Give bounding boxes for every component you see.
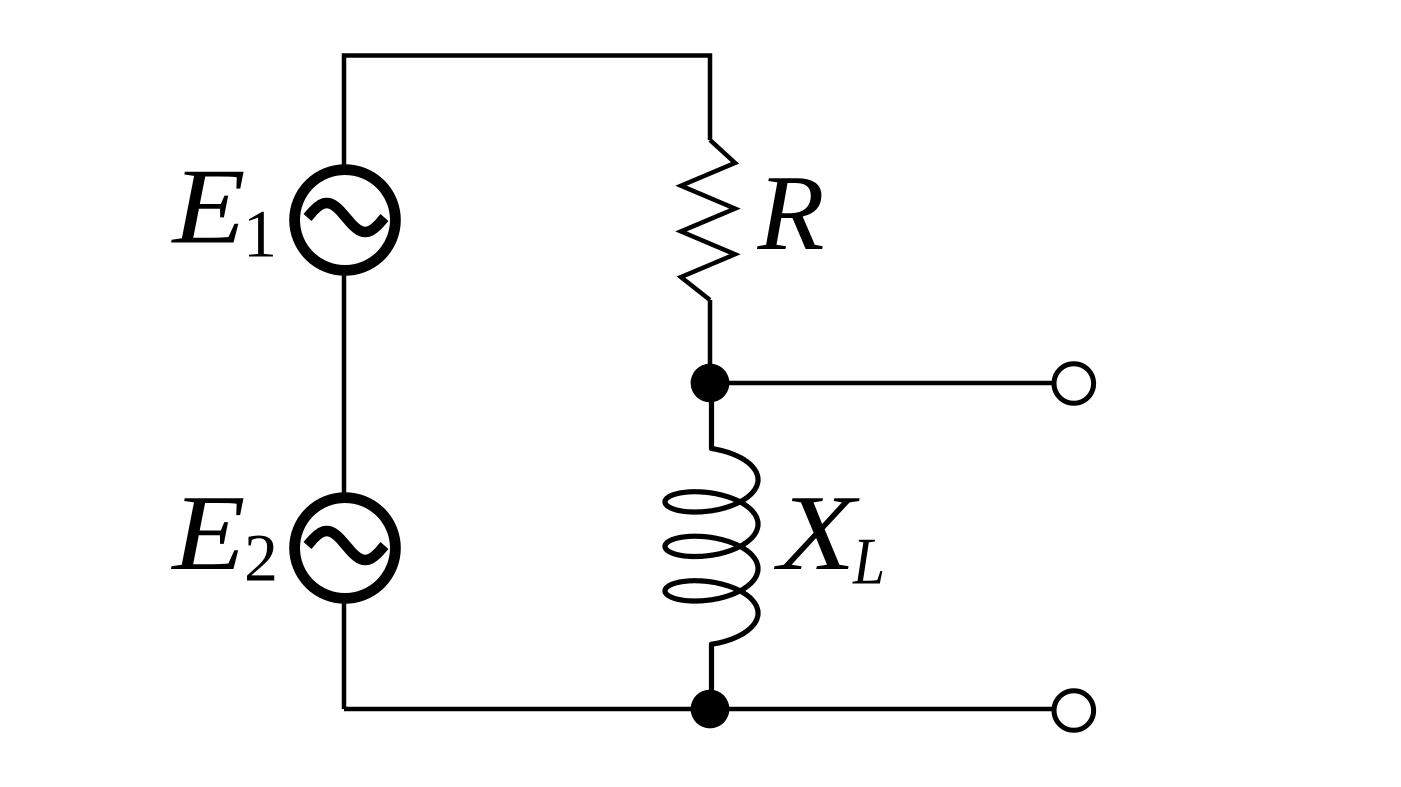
node B junction dot: [691, 690, 730, 729]
svg-text:R: R: [756, 154, 824, 273]
wire top horizontal: [344, 56, 710, 710]
terminal 2: [1054, 691, 1094, 731]
svg-text:X: X: [773, 474, 860, 593]
wire node A to terminal 1: [710, 381, 1054, 386]
svg-text:1: 1: [243, 196, 277, 272]
resistor R: [681, 140, 735, 300]
source E2: [295, 498, 396, 599]
svg-text:L: L: [852, 524, 885, 598]
terminal 1: [1054, 364, 1094, 404]
sine symbol E1: [308, 203, 385, 232]
inductor XL coil: [665, 402, 758, 709]
source E1: [295, 170, 396, 271]
wire bottom horizontal: [344, 707, 1054, 712]
node A junction dot: [691, 364, 730, 403]
svg-text:E: E: [170, 148, 245, 267]
wire resistor to node A: [708, 300, 713, 383]
svg-text:2: 2: [244, 520, 278, 596]
svg-text:E: E: [170, 474, 245, 593]
sine symbol E2: [308, 531, 385, 560]
